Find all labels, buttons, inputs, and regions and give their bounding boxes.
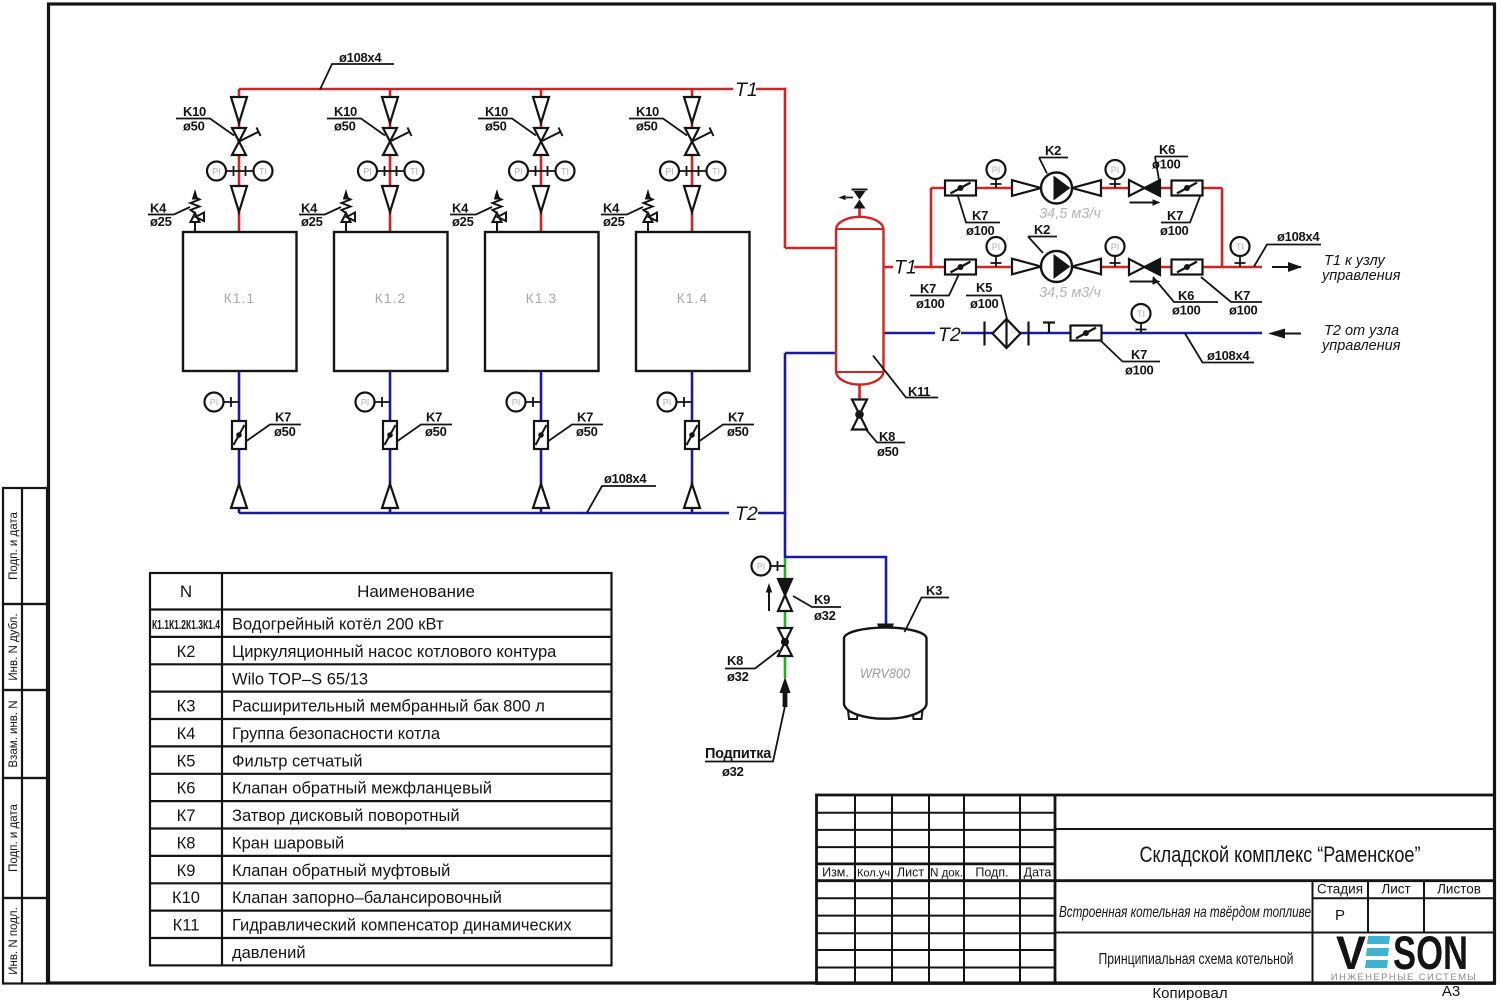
- svg-text:Инв. N подл.: Инв. N подл.: [8, 907, 20, 975]
- svg-text:K7: K7: [1131, 347, 1147, 362]
- svg-text:34,5 м3/ч: 34,5 м3/ч: [1039, 206, 1101, 222]
- svg-text:ø100: ø100: [966, 223, 995, 238]
- svg-text:Лист: Лист: [1381, 882, 1410, 897]
- svg-text:Расширительный мембранный бак: Расширительный мембранный бак 800 л: [232, 698, 545, 716]
- svg-text:Кран шаровый: Кран шаровый: [232, 835, 344, 853]
- svg-text:Т2 от узла: Т2 от узла: [1324, 323, 1399, 339]
- svg-text:K7: K7: [920, 281, 936, 296]
- svg-text:N док.: N док.: [930, 868, 963, 880]
- svg-text:К5: К5: [177, 753, 196, 771]
- svg-text:Подп. и дата: Подп. и дата: [8, 512, 20, 580]
- svg-text:давлений: давлений: [232, 944, 306, 962]
- svg-text:K3: K3: [926, 583, 942, 598]
- svg-text:Инв. N дубл.: Инв. N дубл.: [8, 613, 20, 680]
- svg-text:ø108x4: ø108x4: [1277, 229, 1320, 244]
- svg-text:ø32: ø32: [722, 764, 744, 779]
- svg-text:Т2: Т2: [735, 503, 758, 525]
- svg-text:К4: К4: [177, 725, 196, 743]
- svg-text:Подпитка: Подпитка: [705, 746, 772, 762]
- svg-text:ø50: ø50: [877, 444, 899, 459]
- svg-text:Wilo TOP–S 65/13: Wilo TOP–S 65/13: [232, 671, 368, 689]
- svg-text:ø100: ø100: [1125, 363, 1154, 378]
- svg-text:Т1: Т1: [894, 257, 917, 279]
- svg-text:Клапан обратный муфтовый: Клапан обратный муфтовый: [232, 862, 450, 880]
- svg-text:К1.4: К1.4: [677, 291, 708, 306]
- svg-text:Подп. и дата: Подп. и дата: [8, 804, 20, 872]
- svg-text:K2: K2: [1045, 143, 1061, 158]
- svg-text:Т1 к узлу: Т1 к узлу: [1324, 253, 1386, 269]
- svg-text:ø108x4: ø108x4: [604, 471, 647, 486]
- svg-text:ø100: ø100: [916, 296, 945, 311]
- svg-text:Складской комплекс “Раменское”: Складской комплекс “Раменское”: [1140, 842, 1421, 867]
- svg-text:Гидравлический компенсатор дин: Гидравлический компенсатор динамических: [232, 917, 572, 935]
- svg-text:ИНЖЕНЕРНЫЕ СИСТЕМЫ: ИНЖЕНЕРНЫЕ СИСТЕМЫ: [1331, 972, 1477, 983]
- svg-text:Затвор дисковый поворотный: Затвор дисковый поворотный: [232, 807, 460, 825]
- svg-text:Дата: Дата: [1024, 866, 1052, 880]
- svg-text:К1.2: К1.2: [375, 291, 406, 306]
- svg-text:ø108x4: ø108x4: [339, 50, 382, 65]
- svg-text:WRV800: WRV800: [860, 665, 910, 681]
- svg-text:К7: К7: [177, 807, 196, 825]
- svg-text:управления: управления: [1321, 268, 1401, 284]
- svg-text:K9: K9: [814, 592, 830, 607]
- svg-text:Циркуляционный насос котлового: Циркуляционный насос котлового контура: [232, 643, 557, 661]
- svg-text:К1.3: К1.3: [526, 291, 557, 306]
- svg-text:ø100: ø100: [1229, 303, 1258, 318]
- svg-text:K5: K5: [976, 280, 992, 295]
- svg-text:Т1: Т1: [735, 79, 758, 101]
- svg-text:K2: K2: [1034, 222, 1050, 237]
- svg-text:ø100: ø100: [1160, 223, 1189, 238]
- svg-text:K6: K6: [1159, 142, 1175, 157]
- svg-text:K6: K6: [1178, 288, 1194, 303]
- svg-text:Листов: Листов: [1437, 882, 1481, 897]
- svg-text:N: N: [180, 582, 192, 601]
- svg-text:К1.1К1.2К1.3К1.4: К1.1К1.2К1.3К1.4: [152, 618, 220, 632]
- svg-text:Лист: Лист: [897, 866, 924, 880]
- svg-text:К10: К10: [172, 889, 200, 907]
- svg-text:Клапан обратный межфланцевый: Клапан обратный межфланцевый: [232, 780, 492, 798]
- svg-text:К3: К3: [177, 698, 196, 716]
- svg-text:Наименование: Наименование: [357, 582, 475, 601]
- svg-text:Кол.уч: Кол.уч: [857, 868, 890, 880]
- svg-text:Встроенная котельная на твёрдо: Встроенная котельная на твёрдом топливе: [1059, 904, 1311, 921]
- svg-text:К6: К6: [177, 780, 196, 798]
- svg-text:K7: K7: [1234, 288, 1250, 303]
- svg-text:Водогрейный котёл 200 кВт: Водогрейный котёл 200 кВт: [232, 616, 444, 634]
- svg-text:Группа безопасности котла: Группа безопасности котла: [232, 725, 441, 743]
- svg-text:Т2: Т2: [938, 324, 961, 346]
- svg-text:Фильтр сетчатый: Фильтр сетчатый: [232, 753, 363, 771]
- svg-text:Взам. инв. N: Взам. инв. N: [8, 700, 20, 767]
- svg-text:Подп.: Подп.: [975, 866, 1008, 880]
- svg-text:А3: А3: [1442, 983, 1460, 1000]
- svg-text:K7: K7: [972, 208, 988, 223]
- svg-text:ø32: ø32: [727, 669, 749, 684]
- svg-text:ø100: ø100: [1172, 303, 1201, 318]
- svg-text:Р: Р: [1335, 907, 1345, 924]
- svg-text:Копировал: Копировал: [1152, 985, 1227, 1000]
- svg-text:ø32: ø32: [814, 608, 836, 623]
- svg-text:Принципиальная схема котельной: Принципиальная схема котельной: [1099, 951, 1294, 968]
- svg-text:Стадия: Стадия: [1317, 882, 1363, 897]
- svg-text:К2: К2: [177, 643, 196, 661]
- svg-text:К1.1: К1.1: [224, 291, 255, 306]
- svg-text:34,5 м3/ч: 34,5 м3/ч: [1039, 285, 1101, 301]
- svg-text:K7: K7: [1167, 208, 1183, 223]
- svg-text:Изм.: Изм.: [822, 866, 849, 880]
- svg-text:ø108x4: ø108x4: [1207, 348, 1250, 363]
- svg-text:управления: управления: [1321, 338, 1401, 354]
- svg-text:К11: К11: [173, 917, 200, 935]
- svg-text:К8: К8: [177, 835, 196, 853]
- svg-text:ø100: ø100: [970, 296, 999, 311]
- svg-text:К9: К9: [177, 862, 196, 880]
- svg-text:K8: K8: [727, 653, 743, 668]
- svg-text:Клапан запорно–балансировочный: Клапан запорно–балансировочный: [232, 889, 502, 907]
